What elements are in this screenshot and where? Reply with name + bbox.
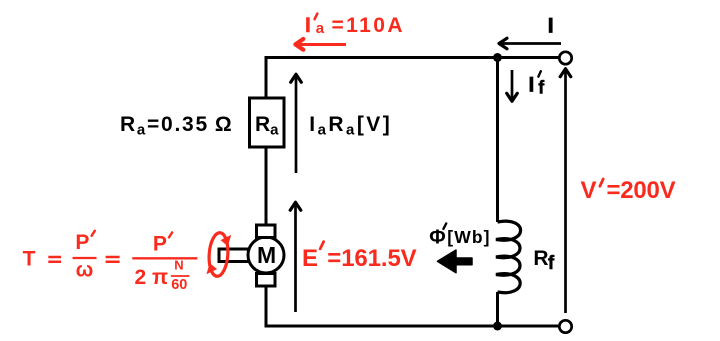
- motor shaft: [219, 249, 250, 262]
- wire motor to bottom and bottom horizontal: [266, 286, 558, 326]
- node junction top: [493, 53, 502, 62]
- arrow Ia=110A red (pointing left): [295, 39, 346, 50]
- svg-text:T: T: [23, 248, 36, 271]
- formula P prime 1: [92, 231, 95, 236]
- flux arrow thick (pointing left): [438, 250, 473, 273]
- svg-text:2 π: 2 π: [135, 266, 169, 289]
- formula small bar: [171, 275, 190, 277]
- wire top horizontal with left vertical to resistor: [266, 58, 559, 99]
- svg-text:60: 60: [171, 277, 187, 293]
- svg-text:=200V: =200V: [607, 177, 676, 204]
- arrow IaRa up: [291, 74, 302, 173]
- wire field branch lower: [496, 292, 499, 326]
- svg-text:R: R: [533, 247, 548, 270]
- svg-text:I: I: [529, 74, 535, 97]
- svg-text:M: M: [257, 242, 276, 268]
- svg-text:N: N: [174, 258, 183, 273]
- arrow V up (right side): [560, 69, 571, 313]
- svg-text:f: f: [538, 77, 545, 97]
- svg-text:Ra=0.35 Ω: Ra=0.35 Ω: [120, 113, 233, 139]
- svg-text:f: f: [548, 253, 555, 274]
- formula P prime 2: [169, 232, 172, 237]
- svg-text:V: V: [581, 177, 597, 204]
- wire resistor to motor: [265, 147, 268, 225]
- formula fraction bar 1: [73, 257, 97, 259]
- svg-text:I: I: [548, 14, 554, 37]
- formula first equals: [48, 257, 61, 262]
- resistor Ra box: [250, 98, 285, 147]
- svg-text:P: P: [153, 232, 167, 255]
- motor brush top: [257, 225, 276, 238]
- node junction bottom: [493, 322, 502, 331]
- arrow current I (black, pointing left): [499, 38, 561, 49]
- rotation arrow ellipse: [203, 232, 235, 278]
- motor brush bottom: [257, 274, 276, 287]
- svg-text:=110A: =110A: [332, 14, 403, 37]
- motor M circle: [248, 237, 284, 273]
- inductor Rf coil: [496, 221, 521, 293]
- svg-text:IaRa[V]: IaRa[V]: [309, 113, 392, 139]
- formula T = P/w = P/(2 pi N/60) red: [23, 231, 198, 293]
- terminal bottom: [559, 320, 571, 332]
- svg-text:=161.5V: =161.5V: [327, 245, 416, 272]
- svg-text:a: a: [316, 20, 325, 37]
- formula fraction bar 2: [132, 257, 197, 259]
- svg-text:[Wb]: [Wb]: [447, 227, 490, 247]
- wire field branch upper: [496, 56, 499, 222]
- svg-text:I: I: [305, 14, 311, 37]
- svg-text:E: E: [302, 245, 318, 272]
- arrow E up: [290, 202, 301, 312]
- formula second equals: [106, 257, 120, 262]
- svg-text:P: P: [75, 231, 89, 254]
- arrow If down: [507, 70, 518, 101]
- terminal top: [559, 52, 571, 64]
- svg-text:ω: ω: [76, 258, 94, 281]
